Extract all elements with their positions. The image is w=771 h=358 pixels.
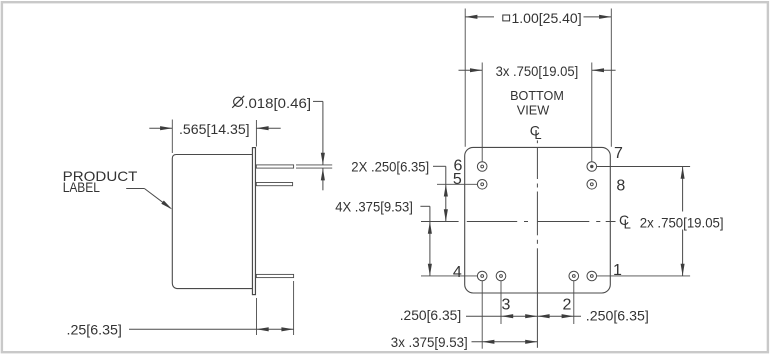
pin 2 extension line xyxy=(573,281,575,324)
label 5 xyxy=(453,171,462,188)
pin 5 xyxy=(477,180,487,190)
dimension 2x .750 [19.05] xyxy=(597,167,724,276)
bottom view title xyxy=(510,88,564,118)
label 7 xyxy=(614,145,623,162)
svg-text:7: 7 xyxy=(614,145,623,162)
dimension .250 [6.35] right xyxy=(537,307,648,323)
svg-text:.25[6.35]: .25[6.35] xyxy=(67,322,122,338)
pin 7 xyxy=(587,162,597,172)
svg-text:.018[0.46]: .018[0.46] xyxy=(244,95,311,111)
svg-text:2x .750[19.05]: 2x .750[19.05] xyxy=(640,214,724,230)
label 1 xyxy=(613,262,622,279)
dimension .565 [14.35] xyxy=(149,120,280,154)
svg-text:BOTTOM: BOTTOM xyxy=(510,88,564,103)
svg-text:5: 5 xyxy=(453,171,462,188)
svg-text:4: 4 xyxy=(453,264,462,281)
dimension .25 [6.35] xyxy=(67,281,294,338)
svg-text:3x .375[9.53]: 3x .375[9.53] xyxy=(391,334,468,350)
bottom view outline xyxy=(465,147,611,293)
product label callout xyxy=(63,168,173,210)
dimension 3x .750 [19.05] xyxy=(459,63,616,162)
centerline symbol top xyxy=(530,122,542,141)
dimension 4X .375 [9.53] xyxy=(335,199,477,276)
dimension .250 [6.35] left xyxy=(400,307,538,323)
pin 4 extension line xyxy=(481,281,483,349)
svg-text:LABEL: LABEL xyxy=(63,179,100,195)
horizontal centerline xyxy=(421,221,616,223)
pin edge extension lines xyxy=(296,165,332,168)
svg-text:3x .750[19.05]: 3x .750[19.05] xyxy=(496,63,579,79)
label 8 xyxy=(616,177,625,194)
label 6 xyxy=(454,157,463,174)
svg-text:L: L xyxy=(534,127,541,142)
pin 4 xyxy=(477,271,487,281)
vertical centerline xyxy=(536,140,538,347)
dimension 2X .250 [6.35] xyxy=(351,158,477,221)
svg-text:1: 1 xyxy=(613,262,622,279)
label 4 xyxy=(453,264,462,281)
pin 6 xyxy=(477,162,487,172)
pin 3 xyxy=(496,271,506,281)
svg-text:.250[6.35]: .250[6.35] xyxy=(400,307,462,323)
svg-text:.250[6.35]: .250[6.35] xyxy=(586,307,649,323)
svg-text:4X .375[9.53]: 4X .375[9.53] xyxy=(335,199,413,215)
svg-text:1.00[25.40]: 1.00[25.40] xyxy=(512,10,582,26)
dimension dia .018 [0.46] xyxy=(232,95,325,191)
pin 1 xyxy=(587,271,597,281)
side view pin row2 xyxy=(256,183,292,186)
side view pin row4 xyxy=(256,274,293,277)
side view pin row1 xyxy=(256,165,293,168)
pin 8 xyxy=(587,180,597,190)
pin 2 xyxy=(569,271,579,281)
svg-text:VIEW: VIEW xyxy=(517,103,550,118)
pin 3 extension line xyxy=(500,281,502,324)
svg-text:.565[14.35]: .565[14.35] xyxy=(179,121,250,137)
svg-text:2: 2 xyxy=(563,296,572,313)
side view flange xyxy=(252,148,255,295)
dimension 1.00 [25.40] xyxy=(465,9,611,147)
svg-text:2X .250[6.35]: 2X .250[6.35] xyxy=(351,158,429,174)
side view body xyxy=(172,155,252,289)
centerline symbol right xyxy=(619,212,631,231)
svg-text:3: 3 xyxy=(502,296,511,313)
svg-text:8: 8 xyxy=(616,177,625,194)
label 2 xyxy=(563,296,572,313)
dimension 3x .375 [9.53] xyxy=(391,334,538,350)
svg-text:L: L xyxy=(624,217,631,232)
label 3 xyxy=(502,296,511,313)
